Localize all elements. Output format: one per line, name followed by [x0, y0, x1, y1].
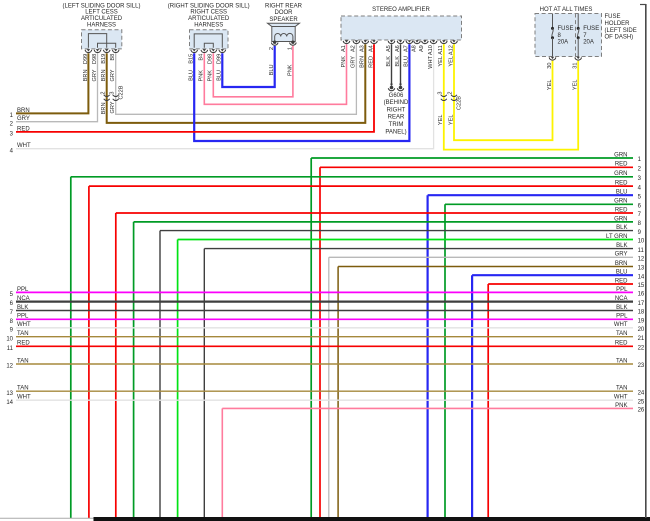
svg-text:22: 22 — [638, 346, 645, 352]
left label TAN 10 — [6, 331, 28, 342]
left line 3 wire RED to amp A4 — [16, 44, 374, 132]
wire BRN left harness pin3 to amp A3 — [107, 44, 366, 123]
wire BLK row 9 horizontal — [160, 230, 633, 232]
wire label BRN pin3 — [101, 70, 107, 82]
stereo amplifier box — [341, 16, 462, 40]
wire label BLK at amp x400.5 — [395, 56, 401, 67]
wire BRN row 13 horizontal — [338, 266, 633, 268]
wire GRN row 3 horizontal — [71, 176, 633, 178]
right label TAN 24 — [616, 386, 645, 397]
connector label C22B left — [118, 85, 124, 99]
ground label G606 — [384, 93, 409, 136]
right harness pin label D98 — [208, 54, 214, 64]
svg-text:BLK: BLK — [616, 225, 627, 231]
amplifier pin A10 — [430, 40, 437, 43]
fuse holder HOT AT ALL TIMES title — [540, 7, 593, 13]
right page border — [640, 4, 646, 518]
wire label BLU D99 — [217, 70, 223, 81]
left harness pin label D99 — [83, 54, 89, 64]
left harness jumper pin1-pin3 — [88, 34, 106, 48]
amplifier pin label A2 — [351, 45, 357, 52]
wire label YEL below break A12 — [448, 115, 454, 126]
svg-text:STEREO AMPLIFIER: STEREO AMPLIFIER — [372, 7, 430, 13]
wire TAN full row left 12 right 23 — [16, 363, 633, 365]
wire label YEL at amp x454.0 — [448, 56, 454, 67]
svg-text:14: 14 — [638, 274, 645, 280]
svg-text:GRN: GRN — [614, 171, 627, 177]
wire PNK row 26 horizontal — [222, 407, 633, 409]
svg-text:PNK: PNK — [615, 403, 627, 409]
svg-text:BLK: BLK — [616, 305, 627, 311]
svg-text:RIGHT: RIGHT — [387, 107, 406, 113]
wire label BLU B15 — [189, 70, 195, 81]
svg-text:A8: A8 — [411, 45, 417, 52]
left label RED 11 — [7, 341, 31, 352]
fuse holder divider — [575, 14, 577, 57]
amplifier pin A9 — [422, 40, 429, 43]
right harness pin B15 — [191, 49, 198, 52]
svg-text:3: 3 — [10, 132, 14, 138]
fuse pin 31 — [575, 57, 582, 60]
svg-text:WHT: WHT — [17, 143, 31, 149]
svg-text:1: 1 — [10, 113, 14, 119]
svg-text:LEFT CESS: LEFT CESS — [85, 10, 118, 16]
wire label RED at amp x374.0 — [368, 56, 374, 68]
right label BRN 13 — [615, 261, 645, 272]
svg-text:17: 17 — [638, 301, 645, 307]
wire BLU right harness D99 to speaker pin 2 — [222, 46, 274, 87]
svg-text:1: 1 — [638, 157, 642, 163]
wire RED row 7 vertical — [115, 213, 117, 518]
svg-text:HOLDER: HOLDER — [605, 21, 631, 27]
svg-text:BRN: BRN — [17, 108, 30, 114]
svg-text:TAN: TAN — [616, 386, 628, 392]
svg-text:9: 9 — [10, 327, 14, 333]
svg-text:PPL: PPL — [17, 287, 29, 293]
svg-text:20A: 20A — [583, 39, 594, 45]
wire RED row 4 vertical — [88, 186, 90, 518]
right label BLU 14 — [616, 270, 645, 281]
wire BLK row 11 horizontal — [204, 248, 633, 250]
amplifier pin A7 — [406, 40, 413, 43]
amplifier pin A8 — [414, 40, 421, 43]
left label TAN 12 — [6, 358, 28, 369]
wire label PNK B4 — [199, 70, 205, 82]
wire label BRN pin1 — [83, 70, 89, 82]
left harness pin D99 — [85, 49, 92, 52]
right label GRN 3 — [614, 171, 641, 182]
svg-text:26: 26 — [638, 408, 645, 414]
svg-text:18: 18 — [638, 310, 645, 316]
left CESS harness title — [63, 3, 141, 28]
svg-text:GRY: GRY — [615, 252, 628, 258]
svg-text:TAN: TAN — [17, 386, 29, 392]
svg-text:2: 2 — [638, 167, 642, 173]
wire RED row 7 horizontal — [116, 212, 633, 214]
svg-text:SPEAKER: SPEAKER — [269, 17, 298, 23]
svg-text:PPL: PPL — [17, 314, 29, 320]
wire BLK row 11 vertical — [203, 249, 205, 518]
svg-text:12: 12 — [6, 364, 13, 370]
svg-text:PPL: PPL — [616, 287, 628, 293]
left label NCA 6 — [10, 296, 30, 307]
right label GRN 1 — [614, 152, 641, 163]
svg-text:8: 8 — [638, 221, 642, 227]
svg-text:RED: RED — [615, 162, 628, 168]
svg-text:13: 13 — [6, 391, 13, 397]
amplifier pin label A5 — [386, 45, 392, 52]
wire label YEL fuse 8 — [547, 80, 553, 91]
fuse pin label 31 — [573, 63, 579, 69]
left label WHT 9 — [10, 322, 31, 333]
wire PPL full row left 8 right 19 — [16, 318, 633, 320]
wire BLK full row left 7 right 18 — [16, 310, 633, 312]
wire GRY row 12 vertical — [328, 257, 330, 518]
right CESS harness title — [168, 3, 250, 28]
left harness pin label B19 — [101, 54, 107, 64]
svg-text:TAN: TAN — [616, 331, 628, 337]
svg-text:GRY: GRY — [17, 116, 30, 122]
svg-text:20A: 20A — [558, 39, 569, 45]
right label BLK 18 — [616, 305, 645, 316]
wire label GRY pin2 — [92, 69, 98, 81]
right label TAN 23 — [616, 358, 645, 369]
wire label PNK at amp x346.5 — [341, 56, 347, 68]
svg-text:A9: A9 — [419, 45, 425, 52]
right rear door speaker title — [265, 3, 303, 23]
svg-text:15: 15 — [638, 283, 645, 289]
left label RED 3 — [10, 126, 31, 137]
svg-text:(LEFT SLIDING DOOR SILL): (LEFT SLIDING DOOR SILL) — [63, 3, 141, 9]
wire GRY left harness pin2 to left edge line 2 — [16, 53, 98, 122]
wire label YEL fuse 7 — [573, 80, 579, 91]
amplifier pin label A3 — [360, 45, 366, 52]
wire label BLK at amp x391.5 — [386, 56, 392, 67]
left label BRN 1 — [10, 108, 30, 119]
wire YEL amp A12 to fuse 8 — [454, 44, 553, 140]
wire RED row 15 vertical — [487, 284, 489, 518]
break pin number 2 amp — [448, 92, 454, 95]
left harness pin label B8 — [110, 54, 116, 61]
svg-text:12: 12 — [638, 257, 645, 263]
svg-text:8: 8 — [10, 319, 14, 325]
svg-text:DOOR: DOOR — [275, 10, 294, 16]
amplifier pin label A6 — [395, 45, 401, 52]
wire TAN full row left 10 right 21 — [16, 336, 633, 338]
svg-text:14: 14 — [6, 400, 13, 406]
speaker pin 1 — [290, 41, 297, 46]
svg-text:GRY: GRY — [110, 101, 116, 113]
amplifier pin A3 — [362, 40, 369, 43]
svg-text:7: 7 — [638, 212, 642, 218]
svg-text:13: 13 — [638, 266, 645, 272]
svg-text:3: 3 — [109, 92, 115, 95]
right harness pin B4 — [201, 49, 208, 52]
svg-text:20: 20 — [638, 327, 645, 333]
amplifier pin label A12 — [448, 45, 454, 55]
wire GRN row 6 horizontal — [445, 203, 633, 205]
svg-text:RED: RED — [615, 278, 628, 284]
wire BRN row 13 vertical — [337, 267, 339, 519]
svg-text:HARNESS: HARNESS — [87, 23, 116, 29]
fuse 7 symbol — [577, 14, 580, 57]
wire GRN row 1 horizontal — [311, 157, 633, 159]
amplifier pin A2 — [353, 40, 360, 43]
wire GRN row 6 vertical — [444, 204, 446, 518]
wire label BLU speaker — [269, 65, 275, 76]
wire PNK right harness D98 to speaker pin 1 — [213, 46, 293, 97]
svg-text:10: 10 — [638, 239, 645, 245]
svg-text:YEL: YEL — [448, 115, 454, 126]
amplifier pin label A4 — [368, 45, 374, 52]
fuse 7 label — [583, 26, 599, 45]
svg-text:4: 4 — [638, 185, 642, 191]
svg-text:WHT: WHT — [614, 395, 628, 401]
wire label PNK speaker — [287, 64, 293, 76]
wire PNK row 26 vertical — [221, 408, 223, 518]
svg-text:RIGHT REAR: RIGHT REAR — [265, 3, 303, 9]
svg-text:GRN: GRN — [614, 152, 627, 158]
right label RED 15 — [615, 278, 645, 289]
right label BLU 5 — [616, 190, 642, 201]
amplifier pin label A1 — [341, 45, 347, 52]
wire GRN row 8 vertical — [133, 222, 135, 518]
connector break C22B pin 3 on YEL A11 — [441, 95, 447, 101]
amplifier pin label A7 — [404, 45, 410, 52]
wire NCA full row left 6 right 17 — [16, 300, 633, 302]
wire BLU row 14 vertical — [471, 275, 473, 518]
right CESS harness box — [190, 30, 229, 49]
svg-text:(LEFT SIDE: (LEFT SIDE — [605, 28, 637, 34]
wire GRN row 1 vertical — [310, 158, 312, 518]
amplifier pin label A8 — [411, 45, 417, 52]
right label GRN 8 — [614, 216, 641, 227]
wire label BLU at amp x409.4 — [404, 56, 410, 67]
right label TAN 21 — [616, 331, 645, 342]
wire BLU row 5 vertical — [427, 195, 429, 518]
left label PPL 8 — [10, 314, 29, 325]
svg-text:PPL: PPL — [616, 314, 628, 320]
amplifier pin A6 — [397, 40, 404, 43]
wire label BRN at amp x365.3 — [360, 56, 366, 68]
speaker SPK symbol — [268, 23, 300, 41]
right harness pin label B15 — [189, 54, 195, 64]
wire TAN full row left 13 right 24 — [16, 390, 633, 392]
wire LT GRN row 10 vertical — [177, 240, 179, 519]
wire BRN left harness pin1 to left edge line 1 — [16, 53, 88, 113]
svg-text:(RIGHT SLIDING DOOR SILL): (RIGHT SLIDING DOOR SILL) — [168, 3, 250, 9]
fuse pin 30 — [549, 57, 556, 60]
svg-text:7: 7 — [10, 310, 14, 316]
right label RED 22 — [615, 341, 645, 352]
svg-text:19: 19 — [638, 319, 645, 325]
wire RED row 2 vertical — [319, 167, 321, 518]
svg-text:GRN: GRN — [614, 199, 627, 205]
stereo amplifier title — [372, 7, 430, 13]
fuse holder box — [535, 14, 602, 57]
wire label PNK D98 — [208, 70, 214, 82]
right label PNK 26 — [615, 403, 645, 414]
wire LT GRN row 10 horizontal — [178, 239, 633, 241]
svg-text:5: 5 — [638, 194, 642, 200]
connector label C22B amp — [457, 96, 463, 110]
svg-text:REAR: REAR — [388, 115, 405, 121]
wire BLK amp A6 to ground — [400, 44, 402, 85]
wire label GRY pin4 — [110, 69, 116, 81]
amplifier pin label A9 — [419, 45, 425, 52]
right label GRN 6 — [614, 199, 641, 210]
wire WHT full row left 9 right 20 — [16, 327, 633, 329]
wire RED full row left 11 right 22 — [16, 345, 633, 347]
svg-text:3: 3 — [437, 92, 443, 95]
right label WHT 20 — [614, 322, 645, 333]
left harness pin B19 — [103, 49, 110, 52]
wire YEL amp A11 to fuse 7 — [444, 44, 578, 149]
wire WHT full row left 14 right 25 — [16, 399, 633, 401]
svg-text:NCA: NCA — [17, 296, 30, 302]
wire GRY left harness pin4 to amp A2 — [116, 44, 357, 114]
svg-text:10: 10 — [6, 336, 13, 342]
right label RED 7 — [615, 207, 642, 218]
amplifier pin A4 — [371, 40, 378, 43]
fuse 8 label — [558, 26, 574, 45]
svg-text:(BEHIND: (BEHIND — [384, 100, 409, 106]
svg-text:6: 6 — [10, 301, 14, 307]
ground G606 terminal A6 — [397, 84, 403, 91]
svg-text:FUSE: FUSE — [605, 14, 621, 20]
svg-text:2: 2 — [448, 92, 454, 95]
speaker pin label 2 — [269, 47, 275, 50]
right label WHT 25 — [614, 395, 645, 406]
svg-text:25: 25 — [638, 399, 645, 405]
wire label YEL at amp x443.8 — [438, 56, 444, 67]
ground G606 terminal A5 — [388, 84, 394, 91]
wire PNK right harness B4 to amp A1 — [204, 44, 346, 104]
svg-text:6: 6 — [638, 204, 642, 210]
left harness pin D98 — [94, 49, 101, 52]
svg-text:2: 2 — [10, 121, 14, 127]
wire PPL full row left 5 right 16 — [16, 291, 633, 293]
wire label YEL below break A11 — [438, 115, 444, 126]
svg-text:GRN: GRN — [614, 216, 627, 222]
bottom component bar — [94, 517, 650, 521]
svg-text:BLK: BLK — [616, 243, 627, 249]
svg-text:PANEL): PANEL) — [385, 129, 406, 135]
svg-text:BLU: BLU — [616, 190, 628, 196]
svg-text:ARTICULATED: ARTICULATED — [81, 16, 123, 22]
svg-text:FUSE: FUSE — [558, 26, 574, 32]
right harness jumper pin2-pin3 — [204, 43, 213, 48]
right label LT GRN 10 — [606, 234, 645, 245]
svg-text:WHT: WHT — [17, 395, 31, 401]
right harness pin label B4 — [199, 54, 205, 61]
amplifier pin A12 — [451, 40, 458, 43]
right harness jumper pin1-pin4 — [194, 34, 222, 48]
left CESS harness box — [82, 30, 122, 49]
wire BLU row 14 horizontal — [472, 274, 633, 276]
svg-text:BRN: BRN — [615, 261, 628, 267]
connector break C22B pin 2 on BRN wire — [104, 95, 110, 101]
bottom thin border line — [0, 517, 94, 519]
svg-text:HOT AT ALL TIMES: HOT AT ALL TIMES — [540, 7, 593, 13]
svg-text:9: 9 — [638, 230, 642, 236]
svg-text:WHT: WHT — [614, 322, 628, 328]
left label BLK 7 — [10, 305, 29, 316]
left label WHT 14 — [6, 395, 31, 406]
svg-text:BRN: BRN — [101, 103, 107, 115]
left harness pin B8 — [112, 49, 119, 52]
wire label WHT at amp x433.6 — [428, 55, 434, 68]
svg-text:21: 21 — [638, 336, 645, 342]
right label RED 2 — [615, 162, 642, 173]
left line 4 wire WHT to amp A10 — [16, 44, 434, 148]
wire BLU right harness B15 to amp A7 — [194, 44, 409, 141]
svg-text:TRIM: TRIM — [389, 122, 404, 128]
wire label GRY below break — [110, 101, 116, 113]
amplifier pin label A10 — [428, 45, 434, 55]
amplifier pin A5 — [388, 40, 395, 43]
svg-text:NCA: NCA — [615, 296, 628, 302]
left label PPL 5 — [10, 287, 29, 298]
svg-text:11: 11 — [7, 346, 14, 352]
svg-text:HARNESS: HARNESS — [194, 23, 223, 29]
svg-text:YEL: YEL — [438, 115, 444, 126]
wire RED row 15 horizontal — [488, 283, 633, 285]
fuse 8 symbol — [551, 14, 554, 57]
wire GRN row 3 vertical — [70, 177, 72, 518]
svg-text:BLU: BLU — [616, 270, 628, 276]
svg-text:RIGHT CESS: RIGHT CESS — [190, 10, 227, 16]
right label GRY 12 — [615, 252, 645, 263]
fuse holder location label — [605, 14, 637, 40]
left label GRY 2 — [10, 116, 30, 127]
fuse pin label 30 — [547, 63, 553, 69]
break pin number 3 — [109, 92, 115, 95]
svg-text:RED: RED — [17, 341, 30, 347]
svg-text:3: 3 — [638, 176, 642, 182]
svg-text:RED: RED — [17, 126, 30, 132]
left label WHT 4 — [10, 143, 31, 154]
svg-text:OF DASH): OF DASH) — [605, 35, 634, 41]
svg-text:WHT: WHT — [17, 322, 31, 328]
wire GRN row 8 horizontal — [134, 221, 633, 223]
speaker pin 2 — [271, 41, 278, 46]
svg-text:FUSE: FUSE — [583, 26, 599, 32]
wire RED row 2 horizontal — [320, 166, 633, 168]
connector break C22B pin 2 on YEL A12 — [451, 95, 457, 101]
svg-text:4: 4 — [10, 148, 14, 154]
svg-text:BLK: BLK — [17, 305, 28, 311]
svg-text:C22B: C22B — [118, 85, 124, 99]
wire BLK row 9 vertical — [159, 231, 161, 518]
right label PPL 19 — [616, 314, 645, 325]
svg-text:LT GRN: LT GRN — [606, 234, 627, 240]
amplifier pin A1 — [343, 40, 350, 43]
svg-text:11: 11 — [638, 248, 645, 254]
svg-text:RED: RED — [615, 341, 628, 347]
svg-text:RED: RED — [615, 181, 628, 187]
connector break C22B pin 3 on GRY wire — [113, 95, 119, 101]
right label RED 4 — [615, 181, 642, 192]
svg-text:24: 24 — [638, 390, 645, 396]
wire label GRY at amp x356.4 — [351, 56, 357, 68]
svg-text:16: 16 — [638, 292, 645, 298]
wire label BRN below break — [101, 103, 107, 115]
svg-text:C22B: C22B — [457, 96, 463, 110]
amplifier pin label A11 — [438, 45, 444, 55]
wire GRY row 12 horizontal — [329, 256, 633, 258]
svg-text:2: 2 — [100, 92, 106, 95]
